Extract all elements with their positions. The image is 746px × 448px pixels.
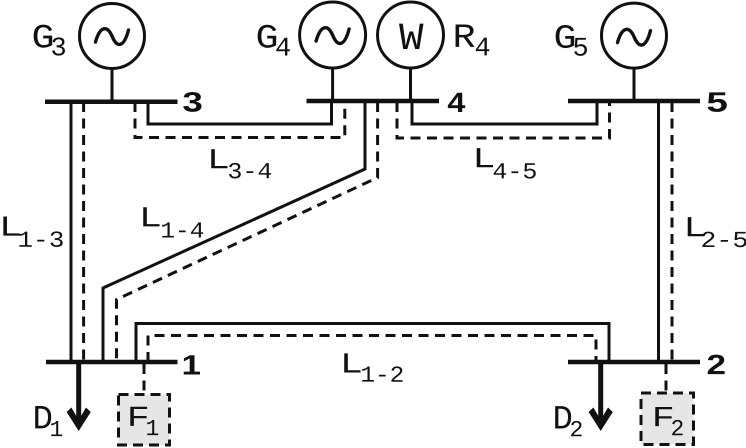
svg-text:3-4: 3-4 — [227, 159, 272, 185]
svg-text:1: 1 — [181, 349, 201, 380]
svg-text:4: 4 — [447, 87, 465, 118]
svg-text:1: 1 — [49, 417, 63, 443]
svg-text:L: L — [139, 202, 162, 235]
svg-text:4-5: 4-5 — [492, 159, 537, 185]
svg-text:5: 5 — [573, 35, 589, 65]
svg-text:5: 5 — [706, 87, 728, 118]
svg-text:3: 3 — [182, 86, 203, 117]
svg-text:2: 2 — [670, 416, 684, 442]
svg-text:3: 3 — [51, 34, 67, 64]
svg-text:1-4: 1-4 — [160, 218, 204, 244]
svg-text:4: 4 — [275, 34, 291, 64]
svg-text:1-2: 1-2 — [360, 363, 404, 389]
svg-text:1-3: 1-3 — [17, 228, 64, 254]
svg-text:4: 4 — [475, 34, 491, 64]
svg-text:2: 2 — [706, 349, 726, 380]
svg-text:W: W — [399, 17, 424, 61]
svg-text:2-5: 2-5 — [700, 228, 746, 254]
svg-text:2: 2 — [569, 417, 583, 443]
svg-text:R: R — [453, 20, 476, 58]
svg-text:1: 1 — [145, 416, 159, 442]
